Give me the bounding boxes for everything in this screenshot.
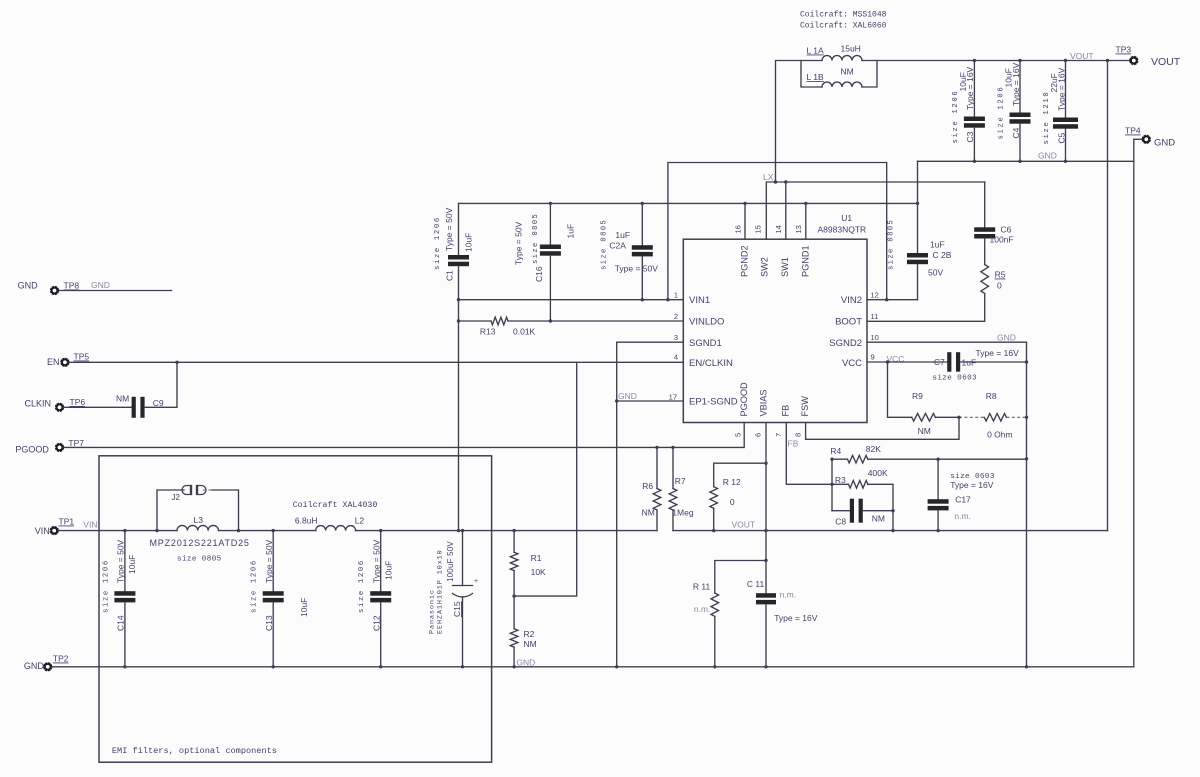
wire FB pin7 line <box>786 423 832 511</box>
svg-text:size 0805: size 0805 <box>888 219 896 270</box>
svg-text:50V: 50V <box>928 268 943 278</box>
svg-text:VCC: VCC <box>842 358 862 369</box>
svg-text:15: 15 <box>754 225 763 233</box>
svg-text:1uF: 1uF <box>930 240 945 250</box>
svg-text:Type = 50V: Type = 50V <box>372 539 382 583</box>
testpoint TP4 <box>1125 126 1151 144</box>
svg-text:C 11: C 11 <box>747 579 765 589</box>
svg-text:10uF: 10uF <box>384 561 394 580</box>
wire EP1 pin17 line <box>617 400 684 402</box>
resistor R13 <box>459 317 684 336</box>
svg-text:VOUT: VOUT <box>1151 56 1181 68</box>
svg-text:0: 0 <box>997 281 1002 291</box>
svg-text:R4: R4 <box>830 446 841 456</box>
svg-text:R7: R7 <box>675 476 686 486</box>
svg-text:GND: GND <box>618 391 637 401</box>
svg-text:3: 3 <box>674 333 678 342</box>
wire GND output rail <box>918 139 1147 667</box>
svg-text:NM: NM <box>116 394 129 404</box>
wire GND rail above IC <box>459 202 918 204</box>
wire FSW pin8 line <box>806 417 959 439</box>
op-amp U1 A8983NQTR regulator IC <box>683 213 867 423</box>
svg-text:size 0805: size 0805 <box>601 219 609 270</box>
svg-text:LX: LX <box>763 172 774 182</box>
svg-text:SW1: SW1 <box>780 257 790 277</box>
svg-text:14: 14 <box>774 225 783 233</box>
svg-text:GND: GND <box>91 280 110 290</box>
svg-text:PGOOD: PGOOD <box>739 382 749 417</box>
svg-text:NM: NM <box>841 67 854 77</box>
svg-text:100nF: 100nF <box>990 235 1014 245</box>
svg-text:Type = 50V: Type = 50V <box>116 539 126 583</box>
inductor L1B <box>801 61 877 88</box>
inductor L1A <box>807 44 863 61</box>
svg-text:size 1206: size 1206 <box>434 216 442 270</box>
svg-text:2: 2 <box>674 312 678 321</box>
wire VOUT sense vertical <box>1107 61 1109 531</box>
resistor R7 <box>669 447 694 530</box>
svg-text:Panasonic: Panasonic <box>429 589 437 634</box>
wire EN line to pin4 <box>68 361 683 363</box>
svg-text:NM: NM <box>642 508 655 518</box>
svg-text:SW2: SW2 <box>759 257 769 277</box>
resistor R11 <box>693 561 766 667</box>
svg-text:11: 11 <box>871 312 879 321</box>
svg-text:TP6: TP6 <box>70 397 86 407</box>
wire VIN1 pin1 line <box>459 299 684 301</box>
svg-text:size 0805: size 0805 <box>177 556 222 564</box>
svg-text:TP3: TP3 <box>1116 45 1132 55</box>
svg-text:EMI filters, optional componen: EMI filters, optional components <box>112 746 277 756</box>
capacitor C5 <box>1043 61 1078 162</box>
svg-text:9: 9 <box>871 353 875 362</box>
svg-text:Type = 16V: Type = 16V <box>950 480 994 490</box>
svg-text:82K: 82K <box>866 444 881 454</box>
svg-text:0 Ohm: 0 Ohm <box>987 430 1013 440</box>
svg-text:R6: R6 <box>642 481 653 491</box>
pin numbers U1 right <box>871 291 879 362</box>
svg-text:C8: C8 <box>835 517 846 527</box>
svg-text:C1: C1 <box>445 270 455 281</box>
wire VIN2 pin12 line <box>867 299 918 301</box>
svg-text:GND: GND <box>18 281 38 291</box>
svg-text:size 1206: size 1206 <box>952 90 960 144</box>
svg-text:1uF: 1uF <box>615 230 630 240</box>
wire GND bottom rail <box>51 666 1134 668</box>
capacitor C1 <box>434 203 474 530</box>
svg-text:Coilcraft XAL4030: Coilcraft XAL4030 <box>293 500 378 510</box>
svg-text:VIN: VIN <box>83 520 97 530</box>
capacitor C7 <box>932 348 1026 383</box>
svg-text:R5: R5 <box>995 270 1006 280</box>
svg-text:EP1-SGND: EP1-SGND <box>689 397 738 408</box>
resistor R8 <box>959 391 1027 440</box>
svg-text:size 1210: size 1210 <box>1043 91 1051 145</box>
svg-text:5: 5 <box>734 433 743 437</box>
svg-text:U1: U1 <box>841 213 852 223</box>
svg-text:VIN1: VIN1 <box>689 295 710 306</box>
svg-text:CLKIN: CLKIN <box>25 399 52 409</box>
svg-text:SGND2: SGND2 <box>829 338 862 349</box>
svg-text:C9: C9 <box>153 398 164 408</box>
svg-text:EN: EN <box>47 357 60 367</box>
svg-text:1Meg: 1Meg <box>672 508 694 518</box>
capacitor C14 <box>102 531 136 667</box>
svg-text:TP1: TP1 <box>59 517 75 527</box>
svg-text:C7: C7 <box>934 357 945 367</box>
port PGOOD TP7 <box>15 438 84 454</box>
svg-text:size 1206: size 1206 <box>251 559 259 613</box>
capacitor C3 <box>952 61 985 162</box>
svg-text:EN/CLKIN: EN/CLKIN <box>689 358 733 369</box>
svg-text:NM: NM <box>872 514 885 524</box>
svg-text:C14: C14 <box>116 615 126 631</box>
wire SGND2 pin10 line <box>867 342 1027 667</box>
capacitor C2B <box>888 161 952 299</box>
svg-text:8: 8 <box>794 433 803 437</box>
svg-text:size 0603: size 0603 <box>932 375 977 383</box>
svg-text:NM: NM <box>918 426 931 436</box>
testpoint TP3 <box>1116 45 1139 65</box>
svg-text:TP5: TP5 <box>74 352 90 362</box>
svg-text:GND: GND <box>516 658 535 668</box>
capacitor C6 <box>974 182 1013 265</box>
wire VCC pin9 line <box>867 361 947 363</box>
svg-text:10K: 10K <box>531 567 546 577</box>
svg-text:EEHZA1H101P 10x10: EEHZA1H101P 10x10 <box>437 549 445 634</box>
wire VBIAS pin6 vertical <box>765 423 767 594</box>
svg-text:PGND2: PGND2 <box>739 245 749 277</box>
svg-text:FB: FB <box>780 405 790 417</box>
wire EN to R1 tap <box>514 362 577 596</box>
svg-text:R 12: R 12 <box>723 477 741 487</box>
svg-text:400K: 400K <box>868 468 888 478</box>
svg-text:size 1206: size 1206 <box>998 86 1006 140</box>
port GND TP8 <box>18 280 172 295</box>
port GND TP2 <box>24 654 69 672</box>
svg-text:C4: C4 <box>1011 127 1021 138</box>
svg-text:15uH: 15uH <box>841 44 861 54</box>
svg-text:NM: NM <box>524 639 537 649</box>
svg-text:10: 10 <box>871 333 879 342</box>
svg-text:SGND1: SGND1 <box>689 338 722 349</box>
svg-text:Type = 50V: Type = 50V <box>444 207 454 251</box>
svg-text:BOOT: BOOT <box>835 317 862 328</box>
svg-text:VIN2: VIN2 <box>841 295 862 306</box>
svg-text:TP8: TP8 <box>64 281 80 291</box>
svg-text:L2: L2 <box>355 516 365 526</box>
capacitor C12 <box>358 531 394 667</box>
wire PGOOD line to pin5 <box>63 423 744 448</box>
svg-text:16: 16 <box>734 225 743 233</box>
pin numbers U1 bottom <box>734 433 803 437</box>
svg-text:n.m.: n.m. <box>694 604 711 614</box>
svg-text:VBIAS: VBIAS <box>759 389 769 416</box>
svg-text:C3: C3 <box>965 131 975 142</box>
port EN TP5 <box>47 352 89 368</box>
svg-text:Type = 16V: Type = 16V <box>976 348 1020 358</box>
svg-text:C15: C15 <box>452 601 462 617</box>
svg-text:C5: C5 <box>1056 132 1066 143</box>
wire VOUT rail <box>776 61 1132 183</box>
svg-text:Type = 16V: Type = 16V <box>1056 67 1066 111</box>
svg-text:PGND1: PGND1 <box>800 245 810 277</box>
svg-text:C17: C17 <box>955 495 971 505</box>
port CLKIN TP6 <box>25 397 86 412</box>
svg-text:PGOOD: PGOOD <box>15 444 49 454</box>
svg-text:TP7: TP7 <box>68 438 84 448</box>
svg-text:Type = 50V: Type = 50V <box>514 221 524 265</box>
svg-text:R9: R9 <box>912 391 923 401</box>
wire SGND1 pin3 line <box>617 341 684 343</box>
svg-text:Type = 16V: Type = 16V <box>965 66 975 110</box>
ferrite bead L3 <box>150 515 250 564</box>
svg-text:L3: L3 <box>194 515 204 525</box>
wire VOUT sense line <box>673 530 1108 532</box>
EMI filter box <box>99 456 492 762</box>
svg-text:C12: C12 <box>372 615 382 631</box>
resistor R9 <box>888 362 960 436</box>
svg-text:4: 4 <box>674 353 678 362</box>
svg-text:0.01K: 0.01K <box>513 327 536 337</box>
svg-text:R2: R2 <box>524 629 535 639</box>
capacitor C8 <box>832 499 893 527</box>
svg-text:C16: C16 <box>534 266 544 282</box>
svg-text:C2A: C2A <box>609 241 626 251</box>
svg-text:size 1206: size 1206 <box>358 559 366 613</box>
svg-text:n.m.: n.m. <box>954 511 971 521</box>
svg-text:FSW: FSW <box>800 396 810 417</box>
node LX <box>763 172 985 239</box>
svg-text:R3: R3 <box>835 475 846 485</box>
svg-text:Type = 16V: Type = 16V <box>1011 62 1021 106</box>
pin numbers U1 left <box>669 291 678 402</box>
capacitor C17 <box>928 459 995 530</box>
svg-text:Type = 16V: Type = 16V <box>774 613 818 623</box>
svg-text:R13: R13 <box>480 327 496 337</box>
svg-text:10uF: 10uF <box>464 233 474 252</box>
svg-text:0: 0 <box>730 497 735 507</box>
svg-text:1uF: 1uF <box>566 224 576 239</box>
capacitor C9 <box>63 362 177 418</box>
svg-text:Type = 50V: Type = 50V <box>264 539 274 583</box>
resistor R3 <box>832 468 893 531</box>
svg-text:+: + <box>474 578 478 585</box>
wire VIN top rail <box>668 163 887 300</box>
svg-text:10uF: 10uF <box>299 598 309 617</box>
svg-text:1uF: 1uF <box>962 358 977 368</box>
svg-text:n.m.: n.m. <box>780 590 797 600</box>
svg-text:GND: GND <box>997 333 1016 343</box>
svg-text:10uF: 10uF <box>127 555 137 574</box>
svg-text:VIN: VIN <box>35 526 50 536</box>
svg-text:C6: C6 <box>1001 225 1012 235</box>
inductor L2 <box>293 500 378 531</box>
svg-text:GND: GND <box>24 661 45 671</box>
resistor R6 <box>642 447 661 530</box>
svg-text:C13: C13 <box>264 615 274 631</box>
svg-text:VOUT: VOUT <box>732 520 756 530</box>
svg-text:R8: R8 <box>986 391 997 401</box>
pin numbers U1 top <box>734 225 803 233</box>
svg-text:size 1206: size 1206 <box>102 559 110 613</box>
svg-text:L 1B: L 1B <box>807 72 825 82</box>
wire SGND vertical to ground <box>616 342 618 667</box>
svg-text:FB: FB <box>788 439 799 449</box>
wire PGND2 pin16 stub <box>744 203 746 239</box>
svg-text:VINLDO: VINLDO <box>689 317 724 328</box>
svg-text:C 2B: C 2B <box>933 250 952 260</box>
svg-text:TP4: TP4 <box>1125 126 1141 136</box>
svg-text:1: 1 <box>674 291 678 300</box>
svg-text:R 11: R 11 <box>693 582 711 592</box>
svg-text:R1: R1 <box>531 553 542 563</box>
svg-text:7: 7 <box>774 433 783 437</box>
capacitor C13 <box>251 531 310 667</box>
resistor R12 <box>710 463 766 530</box>
wire PGND1 pin13 stub <box>805 203 807 239</box>
svg-text:Type = 50V: Type = 50V <box>615 264 659 274</box>
svg-text:Coilcraft: MSS1048: Coilcraft: MSS1048 <box>800 11 887 20</box>
svg-text:Coilcraft: XAL6060: Coilcraft: XAL6060 <box>800 22 887 31</box>
capacitor C16 <box>514 203 576 321</box>
svg-text:17: 17 <box>669 393 677 402</box>
wire VIN rail <box>58 530 657 532</box>
svg-text:VOUT: VOUT <box>1070 51 1094 61</box>
svg-text:size 0805: size 0805 <box>532 213 540 264</box>
svg-text:GND: GND <box>1154 138 1175 149</box>
svg-text:13: 13 <box>794 225 803 233</box>
svg-text:TP2: TP2 <box>53 654 69 664</box>
svg-text:6.8uH: 6.8uH <box>295 516 318 526</box>
resistor R1 <box>510 531 546 597</box>
jumper J2 <box>157 486 239 531</box>
svg-text:GND: GND <box>1038 151 1057 161</box>
svg-text:J2: J2 <box>172 493 181 502</box>
capacitor C4 <box>998 61 1031 162</box>
resistor R2 <box>510 596 536 667</box>
capacitor C11 <box>747 579 818 667</box>
capacitor C2A <box>601 203 659 299</box>
port VIN TP1 <box>35 517 98 537</box>
capacitor C15 electrolytic <box>429 531 479 667</box>
resistor R4 <box>830 444 1026 463</box>
svg-text:100uF 50V: 100uF 50V <box>446 541 455 582</box>
svg-text:12: 12 <box>871 291 879 300</box>
svg-text:L 1A: L 1A <box>807 46 825 56</box>
svg-text:6: 6 <box>754 433 763 437</box>
svg-text:MPZ2012S221ATD25: MPZ2012S221ATD25 <box>150 538 250 548</box>
svg-text:A8983NQTR: A8983NQTR <box>818 225 867 235</box>
resistor R5 <box>867 265 1006 322</box>
